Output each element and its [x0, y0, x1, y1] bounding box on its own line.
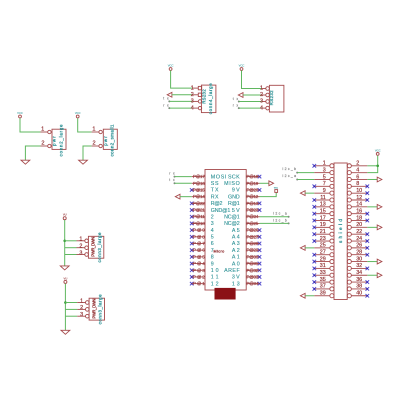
svg-text:37: 37 — [320, 284, 326, 290]
wire SV1 pin 34 to port arrow — [367, 274, 377, 276]
svg-text:VCC: VCC — [17, 111, 23, 115]
junction on SV1 VCC net — [376, 165, 379, 168]
svg-text:i2c_b: i2c_b — [273, 218, 287, 222]
svg-text:P@3: P@3 — [193, 268, 205, 273]
svg-text:NC@2: NC@2 — [224, 221, 240, 227]
svg-text:8: 8 — [211, 255, 214, 261]
svg-text:13: 13 — [320, 202, 326, 208]
net stub i2c_a at SV1 pin 5 — [283, 174, 299, 180]
svg-text:VU: VU — [63, 213, 67, 217]
U1 pin labels right column — [224, 174, 240, 287]
net stub i2c_b at U1 NC@2 pin — [273, 218, 289, 224]
svg-text:P@34: P@34 — [247, 281, 259, 286]
svg-text:35: 35 — [320, 277, 326, 283]
svg-text:P@11: P@11 — [193, 214, 205, 219]
net stub rx (X2 pin 4) — [233, 103, 262, 109]
svg-text:PWR_DWN: PWR_DWN — [91, 237, 96, 257]
wire to J4 pin 2 — [65, 308, 77, 310]
svg-text:1: 1 — [260, 86, 263, 92]
svg-text:P@2: P@2 — [193, 274, 205, 279]
svg-text:3: 3 — [80, 312, 83, 318]
svg-text:conn3_large: conn3_large — [97, 232, 102, 263]
svg-text:AREF: AREF — [224, 268, 240, 274]
port arrow on SV1 pin 34 — [377, 273, 382, 278]
ground (J2) — [79, 160, 88, 164]
svg-text:2: 2 — [191, 92, 194, 98]
net stub rx (X1 pin 4) — [163, 103, 192, 109]
svg-text:P@20: P@20 — [247, 187, 259, 192]
svg-text:P@9: P@9 — [193, 228, 205, 233]
ground (J4) — [61, 330, 70, 334]
svg-text:19: 19 — [320, 222, 326, 228]
svg-text:2: 2 — [80, 305, 83, 311]
port arrow on U1 MISO pin — [269, 181, 274, 186]
svg-text:1: 1 — [323, 161, 326, 167]
svg-text:P@31: P@31 — [247, 261, 259, 266]
net stub tx at U1 SS pin — [169, 178, 175, 184]
svg-text:conn2_large: conn2_large — [58, 124, 63, 157]
svg-text:5: 5 — [211, 235, 214, 241]
junction on J4 pin 1 wire — [64, 301, 67, 304]
svg-text:9: 9 — [323, 188, 326, 194]
wire to J4 pin 1 — [65, 302, 77, 304]
U1 left pins with names — [192, 174, 206, 286]
svg-text:P@26: P@26 — [247, 228, 259, 233]
ground (J1) — [21, 160, 30, 164]
svg-text:P@14: P@14 — [193, 194, 205, 199]
net stub i2c_b at SV1 pin 3 — [283, 167, 299, 173]
wire stub to U1 pin P@16 — [175, 182, 192, 184]
svg-text:11: 11 — [320, 195, 326, 201]
connector X1 RS232 conn4_large — [192, 83, 216, 115]
wire to J3 pin 2 — [65, 247, 77, 249]
ground (J3) — [60, 266, 69, 270]
svg-text:18: 18 — [356, 215, 362, 221]
svg-text:11: 11 — [211, 275, 219, 281]
wire SV1 pin 2 to VCC net — [367, 165, 377, 167]
svg-text:12: 12 — [211, 281, 219, 287]
svg-text:P@28: P@28 — [247, 241, 259, 246]
svg-text:A4: A4 — [232, 235, 240, 241]
svg-text:P@4: P@4 — [193, 261, 205, 266]
svg-text:i2c_a: i2c_a — [283, 174, 297, 178]
svg-text:7: 7 — [323, 181, 326, 187]
power symbol VU (J3) — [63, 213, 67, 220]
svg-text:39: 39 — [320, 291, 326, 297]
wire stub to U1 pin P@17 — [175, 176, 192, 178]
svg-text:9: 9 — [211, 261, 214, 267]
wire VCC to J2 pin 1 — [78, 118, 92, 132]
svg-text:1: 1 — [191, 85, 194, 91]
svg-text:GND@1: GND@1 — [211, 208, 231, 214]
svg-text:NC@1: NC@1 — [224, 214, 240, 220]
svg-text:P@15: P@15 — [193, 187, 205, 192]
svg-text:P@17: P@17 — [193, 174, 205, 179]
connector J2 pwr conn2_small1 — [92, 124, 118, 157]
port arrow on SV1 pin 6 — [377, 177, 382, 182]
svg-text:P@10: P@10 — [193, 221, 205, 226]
svg-text:32: 32 — [356, 263, 362, 269]
svg-text:P@12: P@12 — [247, 194, 259, 199]
U1 no-connect marks left side — [190, 188, 194, 285]
svg-text:27: 27 — [320, 250, 326, 256]
svg-text:4: 4 — [356, 167, 359, 173]
svg-text:13: 13 — [232, 281, 240, 287]
wire VCC to X1 pin 1 — [171, 70, 193, 88]
power symbol VU (J4) — [64, 276, 68, 283]
svg-text:2: 2 — [211, 214, 214, 220]
svg-text:conn4_large: conn4_large — [208, 83, 213, 115]
wire VCC to J1 pin 1 — [20, 118, 41, 132]
svg-text:SS: SS — [211, 181, 219, 187]
svg-text:P@24: P@24 — [247, 214, 259, 219]
supply symbol vcc (U1 GND) — [274, 187, 279, 193]
svg-text:PWR_DWN: PWR_DWN — [91, 299, 96, 319]
svg-text:tx: tx — [233, 97, 239, 101]
port arrow on SV1 pin 9 — [300, 191, 305, 196]
svg-text:A0: A0 — [232, 261, 240, 267]
U1 pin labels left column — [211, 174, 231, 287]
svg-text:3V: 3V — [232, 275, 240, 281]
svg-text:SCK: SCK — [228, 174, 240, 180]
power symbol VCC (SV1) — [375, 148, 381, 155]
svg-text:36: 36 — [356, 277, 362, 283]
svg-text:P@30: P@30 — [247, 254, 259, 259]
wire to J4 pin 3 — [65, 315, 77, 317]
svg-text:28: 28 — [356, 250, 362, 256]
connector X2 RS232 — [262, 85, 284, 112]
svg-text:33: 33 — [320, 270, 326, 276]
wire J1 pin 2 to ground — [25, 146, 40, 160]
wire VU to ground through J3 pins — [64, 220, 66, 266]
svg-text:P@22: P@22 — [193, 201, 205, 206]
svg-text:4: 4 — [211, 228, 214, 234]
svg-text:R@2: R@2 — [211, 201, 223, 207]
port arrow on SV1 pin 39 — [300, 293, 305, 298]
port arrow on SV1 pin 30 — [377, 259, 382, 264]
svg-text:VCC: VCC — [375, 148, 381, 152]
svg-text:25: 25 — [320, 243, 326, 249]
svg-text:conn3_large: conn3_large — [98, 294, 103, 325]
svg-text:pwr: pwr — [52, 136, 57, 146]
port arrow on X1 pin 2 — [167, 92, 172, 97]
U1 no-connect marks right side — [258, 175, 262, 286]
svg-text:9V: 9V — [232, 188, 240, 194]
SV1 no-connect marks right side — [366, 185, 370, 298]
svg-text:P@21: P@21 — [193, 208, 205, 213]
svg-text:30: 30 — [356, 256, 362, 262]
port arrow on X2 pin 2 — [238, 93, 243, 98]
svg-text:2: 2 — [260, 92, 263, 98]
SV1 no-connect marks left side — [313, 164, 317, 291]
svg-text:6: 6 — [211, 241, 214, 247]
svg-text:conn2_small1: conn2_small1 — [110, 124, 115, 157]
svg-text:P@19: P@19 — [247, 181, 259, 186]
svg-text:A3: A3 — [232, 241, 240, 247]
wire stub to SV1 pin 3 — [297, 172, 314, 174]
SV1 even pin numbers — [356, 161, 362, 297]
port arrow on SV1 pin 25 — [300, 245, 305, 250]
svg-text:2: 2 — [93, 141, 96, 147]
connector J3 PWR_DWN conn3_large — [77, 232, 104, 263]
svg-text:26: 26 — [356, 243, 362, 249]
net stub tx (X2 pin 3) — [233, 97, 262, 103]
svg-text:3: 3 — [79, 250, 82, 256]
svg-text:15: 15 — [320, 208, 326, 214]
svg-text:RS232: RS232 — [269, 90, 274, 105]
wire stub to U1 pin P@25 — [260, 222, 289, 224]
svg-text:P@29: P@29 — [247, 248, 259, 253]
power symbol VCC (X2) — [239, 63, 245, 70]
svg-text:R@1: R@1 — [228, 201, 240, 207]
wire arrow to SV1 pin 9 — [305, 192, 314, 194]
U1 connector block (filled) — [215, 288, 235, 299]
svg-text:pwr: pwr — [103, 136, 108, 146]
svg-text:VU: VU — [64, 276, 68, 280]
svg-text:RX: RX — [211, 194, 219, 200]
svg-text:A5: A5 — [232, 228, 240, 234]
svg-text:P@18: P@18 — [247, 174, 259, 179]
svg-text:1: 1 — [41, 127, 44, 133]
svg-text:P@16: P@16 — [193, 181, 205, 186]
svg-text:10: 10 — [356, 188, 362, 194]
svg-text:1: 1 — [80, 298, 83, 304]
svg-text:1: 1 — [79, 237, 82, 243]
svg-text:rx: rx — [163, 103, 169, 107]
svg-text:4: 4 — [191, 105, 194, 111]
svg-text:1: 1 — [92, 127, 95, 133]
wire SV1 pin 6 to port arrow — [367, 178, 377, 180]
svg-text:6: 6 — [356, 174, 359, 180]
wire arrow to SV1 pin 25 — [305, 247, 314, 249]
wire to J3 pin 1 — [65, 240, 77, 242]
wire arrow to SV1 pin 39 — [305, 295, 314, 297]
svg-text:RS232: RS232 — [201, 89, 206, 104]
wire U1 MISO pin to port arrow — [260, 182, 269, 184]
svg-text:3: 3 — [211, 221, 214, 227]
svg-text:3: 3 — [260, 99, 263, 105]
svg-text:16: 16 — [356, 208, 362, 214]
port arrow on SV1 pin 14 — [377, 204, 382, 209]
connector J1 pwr conn2_large — [41, 124, 67, 157]
wire arrow to X1 pin 2 — [172, 94, 192, 96]
port arrow on U1 RX pin — [175, 194, 180, 199]
wire arrow to U1 pin P@14 — [180, 196, 192, 198]
svg-text:i2c_a: i2c_a — [273, 212, 287, 216]
svg-text:2: 2 — [79, 244, 82, 250]
junction on J3 pin 1 wire — [63, 240, 66, 243]
svg-text:P@5: P@5 — [193, 254, 205, 259]
svg-text:Micro: Micro — [214, 250, 225, 254]
svg-text:34: 34 — [356, 270, 362, 276]
svg-text:12: 12 — [356, 195, 362, 201]
wire VCC to SV1 pins 2 and 4 — [367, 156, 377, 173]
svg-text:10: 10 — [211, 268, 219, 274]
svg-text:A1: A1 — [232, 255, 240, 261]
svg-text:23: 23 — [320, 236, 326, 242]
svg-text:VCC: VCC — [75, 111, 81, 115]
svg-text:17: 17 — [320, 215, 326, 221]
svg-text:22: 22 — [356, 229, 362, 235]
wire SV1 pin 30 to port arrow — [367, 261, 377, 263]
svg-text:P@6: P@6 — [193, 248, 205, 253]
svg-text:VCC: VCC — [168, 63, 174, 67]
wire VU to ground through J4 pins — [64, 284, 66, 331]
svg-text:VCC: VCC — [239, 63, 245, 67]
svg-text:P@7: P@7 — [193, 241, 205, 246]
svg-text:tx: tx — [163, 97, 169, 101]
svg-text:38: 38 — [356, 284, 362, 290]
connector J4 PWR_DWN conn3_large — [77, 294, 104, 325]
svg-text:29: 29 — [320, 256, 326, 262]
svg-text:2: 2 — [41, 141, 44, 147]
svg-text:P@13: P@13 — [247, 201, 259, 206]
net stub tx (X1 pin 3) — [163, 97, 192, 103]
svg-text:P@27: P@27 — [247, 234, 259, 239]
power symbol VCC (X1) — [168, 63, 174, 70]
SV1 odd pin numbers — [320, 161, 326, 297]
svg-text:tx: tx — [169, 178, 175, 182]
svg-text:P@8: P@8 — [193, 234, 205, 239]
wire SV1 pin 20 to port arrow — [367, 226, 377, 228]
wire arrow to X2 pin 2 — [243, 94, 262, 96]
svg-text:MOSI: MOSI — [211, 174, 227, 180]
svg-text:3: 3 — [323, 167, 326, 173]
svg-text:31: 31 — [320, 263, 326, 269]
wire SV1 pin 14 to port arrow — [367, 206, 377, 208]
wire J2 pin 2 to ground — [83, 146, 92, 160]
svg-text:3: 3 — [191, 99, 194, 105]
svg-text:i2c_b: i2c_b — [283, 167, 297, 171]
svg-text:P@33: P@33 — [247, 274, 259, 279]
svg-text:21: 21 — [320, 229, 326, 235]
svg-text:rx: rx — [233, 103, 239, 107]
power symbol VCC (J2) — [75, 111, 81, 118]
wire to J3 pin 3 — [65, 254, 77, 256]
svg-text:shield: shield — [338, 219, 343, 243]
port arrow on SV1 pin 20 — [377, 225, 382, 230]
net stub rx at U1 MOSI pin — [169, 171, 175, 177]
svg-text:P@1: P@1 — [193, 281, 205, 286]
svg-text:4: 4 — [260, 105, 263, 111]
wire U1 GND pin to supply symbol — [260, 192, 277, 196]
svg-text:MISO: MISO — [224, 181, 240, 187]
svg-text:2: 2 — [356, 161, 359, 167]
svg-text:P@25: P@25 — [247, 221, 259, 226]
svg-text:A2: A2 — [232, 248, 240, 254]
wire VCC to X2 pin 1 — [242, 70, 262, 88]
svg-text:P@32: P@32 — [247, 268, 259, 273]
svg-text:GND: GND — [228, 194, 240, 200]
op-amp U1 Micro body — [205, 170, 246, 291]
svg-text:5: 5 — [323, 174, 326, 180]
net stub i2c_a at U1 NC@1 pin — [273, 212, 289, 218]
svg-text:24: 24 — [356, 236, 362, 242]
svg-text:TX: TX — [211, 188, 219, 194]
U1 right pins with names — [246, 174, 259, 286]
svg-text:5V: 5V — [232, 208, 240, 214]
svg-text:vcc: vcc — [274, 187, 279, 190]
connector SV1 shield body — [314, 163, 367, 300]
svg-text:40: 40 — [356, 291, 362, 297]
svg-text:rx: rx — [169, 171, 175, 175]
svg-text:8: 8 — [356, 181, 359, 187]
svg-text:P@23: P@23 — [247, 208, 259, 213]
svg-text:14: 14 — [356, 202, 362, 208]
wire stub to U1 pin P@24 — [260, 216, 289, 218]
wire stub to SV1 pin 5 — [297, 178, 314, 180]
power symbol VCC (J1) — [17, 111, 23, 118]
svg-text:20: 20 — [356, 222, 362, 228]
